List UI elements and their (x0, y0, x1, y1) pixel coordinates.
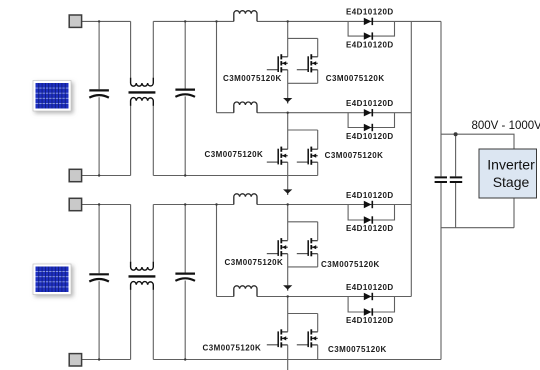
svg-text:C3M0075120K: C3M0075120K (328, 345, 387, 354)
svg-text:E4D10120D: E4D10120D (346, 132, 394, 141)
wire: DC+ link to inverter (441, 134, 514, 149)
wire: bottom negative rail (82, 359, 442, 361)
node: cap C4 bottom (184, 358, 186, 360)
svg-text:E4D10120D: E4D10120D (346, 191, 394, 200)
diode D6 (364, 216, 373, 223)
wire: rail join column bottom half (216, 205, 218, 297)
wire: diode branch row3 (348, 205, 394, 221)
wire: DC bus 2 (440, 21, 442, 359)
capacitor C4 (175, 274, 195, 281)
wire: DC collection bus 1 (410, 21, 412, 296)
wire: phase2 drain/source column (288, 113, 318, 190)
mosfet Q1 (267, 54, 288, 72)
capacitor C2 (175, 90, 195, 97)
bus capacitor C6 (450, 177, 462, 182)
mosfet Q4 (297, 147, 318, 165)
terminal J2 PV1- (69, 169, 81, 181)
capacitor C3 (89, 274, 109, 281)
svg-text:E4D10120D: E4D10120D (346, 316, 394, 325)
node: cap C2 top (184, 20, 186, 22)
svg-text:C3M0075120K: C3M0075120K (225, 258, 284, 267)
wire: negative rail top half (82, 175, 318, 177)
mosfet Q2 (297, 54, 318, 72)
node: phase2 rail tap (287, 112, 289, 114)
mosfet Q5 (267, 238, 288, 256)
wire: diode branch row4 (348, 297, 394, 313)
svg-text:800V - 1000V: 800V - 1000V (472, 120, 540, 132)
terminal J4 PV2- (69, 354, 81, 366)
wire: diode branch row2 (348, 113, 394, 128)
net arrow phase2 to DC- (283, 189, 292, 194)
PV panel 1 (33, 81, 71, 112)
svg-text:E4D10120D: E4D10120D (346, 8, 394, 17)
mosfet Q3 (267, 147, 288, 165)
capacitor C1 (89, 90, 109, 97)
diode D3 (364, 109, 373, 116)
svg-text:Stage: Stage (493, 174, 530, 190)
PV panel 2 (33, 264, 71, 295)
svg-text:E4D10120D: E4D10120D (346, 224, 394, 233)
diode D2 (364, 32, 373, 39)
svg-text:Inverter: Inverter (487, 157, 535, 173)
svg-text:C3M0075120K: C3M0075120K (205, 150, 264, 159)
diode D1 (364, 18, 373, 25)
wire: cap C1 column (98, 21, 100, 175)
node: DC+ cap junction (454, 132, 458, 136)
svg-text:C3M0075120K: C3M0075120K (325, 151, 384, 160)
inductor L4 (234, 286, 257, 297)
wire: choke T1 columns (131, 21, 154, 175)
svg-text:E4D10120D: E4D10120D (346, 40, 394, 49)
common-mode choke T2 (129, 262, 156, 290)
net arrow phase1 to DC- (283, 98, 292, 103)
wire: cap C3 column (98, 205, 100, 360)
wire: bus capacitor 2 column (455, 134, 457, 228)
svg-text:C3M0075120K: C3M0075120K (203, 343, 262, 352)
svg-text:C3M0075120K: C3M0075120K (321, 260, 380, 269)
net arrow phase3 to DC- (283, 285, 292, 290)
node: phase1 rail tap (287, 20, 289, 22)
node: phase3 rail tap (287, 203, 289, 205)
svg-text:C3M0075120K: C3M0075120K (326, 74, 385, 83)
node: cap C3 top (98, 203, 100, 205)
inductor L1 (234, 11, 257, 22)
wire: rail A' (PV2+) (82, 204, 412, 206)
node: cap C4 top (184, 203, 186, 205)
terminal J3 PV2+ (69, 198, 81, 210)
svg-text:C3M0075120K: C3M0075120K (223, 74, 282, 83)
diode D4 (364, 124, 373, 131)
inductor L2 (234, 102, 257, 113)
svg-text:E4D10120D: E4D10120D (346, 99, 394, 108)
wire: phase3 drain/source column (288, 205, 318, 286)
bus capacitor C5 (435, 177, 447, 182)
inductor L3 (234, 194, 257, 205)
wire: rail A top (PV1+) segments (82, 20, 442, 22)
diode D7 (364, 293, 373, 300)
inverter stage box (479, 149, 537, 198)
wire: phase4 drain/source column (288, 297, 318, 370)
diode D5 (364, 201, 373, 208)
wire: rail join column top half (216, 21, 218, 112)
svg-text:E4D10120D: E4D10120D (346, 283, 394, 292)
mosfet Q7 (267, 329, 288, 347)
wire: choke T2 columns (131, 205, 154, 360)
node: join column rail A' (215, 203, 217, 205)
wire: cap C2 column (184, 21, 186, 175)
junction node dots (98, 20, 458, 360)
node: phase4 rail tap (287, 295, 289, 297)
diode D8 (364, 308, 373, 315)
node: cap C2 bottom (184, 174, 186, 176)
terminal J1 PV1+ (69, 15, 81, 27)
mosfet Q6 (297, 238, 318, 256)
wire: rail B (phase 2 feed) (217, 112, 412, 114)
node: cap C1 bottom (98, 174, 100, 176)
mosfet Q8 (297, 329, 318, 347)
wire: DC- return from inverter (441, 198, 514, 228)
common-mode choke T1 (129, 78, 156, 106)
wire: cap C4 column (184, 205, 186, 360)
node: join column rail A (215, 20, 217, 22)
wire: diode branch row1 (348, 21, 394, 36)
node: cap C1 top (98, 20, 100, 22)
wire: phase1 drain/source column (288, 21, 318, 98)
wire: rail B' (phase 4 feed) (217, 296, 412, 298)
node: cap C3 bottom (98, 358, 100, 360)
